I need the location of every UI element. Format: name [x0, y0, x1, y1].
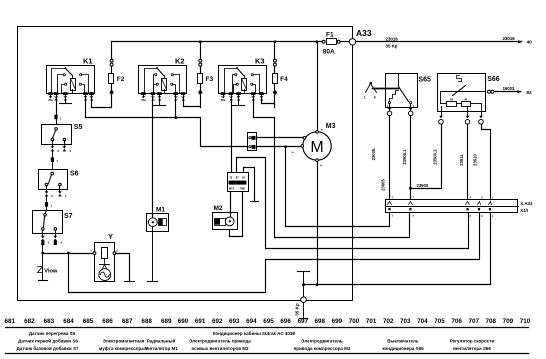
svg-text:695: 695 — [263, 318, 274, 325]
svg-text:87: 87 — [236, 176, 239, 180]
svg-text:86a: 86a — [221, 98, 226, 102]
junction M3 supply tap — [316, 40, 319, 43]
svg-text:1: 1 — [51, 204, 53, 208]
svg-text:686: 686 — [102, 318, 113, 325]
wire junction to connector strip (bus A) — [286, 147, 390, 227]
svg-text:кондиционера S65: кондиционера S65 — [382, 346, 424, 351]
svg-text:1: 1 — [492, 215, 494, 218]
svg-text:23005.: 23005. — [371, 148, 376, 161]
junction net87 at K2 — [174, 116, 177, 119]
regulator S66 fan speed — [438, 74, 500, 113]
svg-text:S7: S7 — [64, 213, 73, 220]
junction feed to strip — [67, 252, 70, 255]
svg-text:40: 40 — [527, 40, 533, 46]
motor M1 — [147, 207, 169, 232]
pin square S5 top — [54, 115, 61, 121]
svg-text:Электродвигатель привода: Электродвигатель привода — [189, 339, 251, 344]
caption switch S65 — [382, 339, 424, 351]
svg-text:694: 694 — [246, 318, 257, 325]
relay K1 — [47, 57, 95, 102]
svg-text:F4: F4 — [280, 76, 288, 83]
svg-text:689: 689 — [161, 318, 172, 325]
svg-text:S6: S6 — [70, 170, 79, 177]
svg-text:23500.1: 23500.1 — [402, 149, 407, 165]
connector strip X A33 and X1/I — [386, 196, 519, 218]
wire K2 pin86 to motor M1 — [152, 98, 154, 219]
svg-text:23511: 23511 — [459, 154, 464, 166]
svg-text:3: 3 — [481, 215, 483, 218]
wire battery feed 23016 to terminal 40 — [356, 40, 523, 43]
wire K1 pin86 to switch S5 — [56, 98, 58, 125]
svg-text:Датчик перегрева S5: Датчик перегрева S5 — [29, 331, 76, 336]
wire main power bus — [112, 41, 322, 43]
svg-text:u-: u- — [320, 163, 323, 167]
wire 23500.2 — [411, 125, 442, 189]
svg-text:703: 703 — [400, 318, 411, 325]
switch S65 A/C on-off — [386, 74, 432, 109]
label X1/I — [520, 208, 528, 213]
svg-text:7: 7 — [392, 196, 394, 199]
connector pins under S7 — [41, 236, 62, 254]
svg-text:85: 85 — [242, 176, 245, 180]
svg-text:696: 696 — [280, 318, 291, 325]
wire connector pin1 to M3 — [257, 137, 304, 139]
chassis termination — [298, 272, 310, 298]
label X.A33 — [520, 201, 533, 206]
label 35 Kp — [386, 43, 398, 48]
svg-text:687: 687 — [122, 318, 133, 325]
motor M2 — [213, 205, 238, 229]
ground clutch Y — [116, 254, 135, 282]
svg-text:78: 78 — [229, 176, 232, 180]
wire K3 pin86 to resistor module — [231, 98, 233, 173]
caption sensors S5 S6 S7 — [17, 331, 79, 351]
wire K2 pin87 drop — [175, 98, 177, 118]
svg-text:Датчик базовой добавки S7: Датчик базовой добавки S7 — [17, 345, 79, 351]
svg-text:вентилятор M1: вентилятор M1 — [144, 346, 178, 351]
svg-text:муфта компрессора Y: муфта компрессора Y — [99, 345, 148, 351]
wire connector pin2 to M3 — [257, 146, 302, 148]
label 23005 upper — [371, 148, 376, 161]
svg-text:23500: 23500 — [417, 183, 429, 188]
junction return bus — [316, 283, 319, 286]
svg-text:M: M — [310, 139, 323, 156]
junction sensor chain — [41, 252, 44, 255]
current track scale 681-710 — [5, 318, 531, 325]
label 23500.2 — [432, 149, 437, 165]
svg-text:Радиальный: Радиальный — [147, 338, 176, 344]
ground exit 35 Kp — [295, 303, 308, 319]
svg-text:2: 2 — [48, 241, 50, 245]
junction 23500 — [409, 187, 412, 190]
wire M3 supply — [317, 42, 319, 131]
wire 23510 — [482, 125, 491, 200]
wire K3 pin87 to bus B — [254, 98, 410, 238]
svg-text:704: 704 — [417, 318, 428, 325]
wire module to M2 plus — [230, 192, 232, 218]
lever actuator of S65 — [363, 82, 398, 100]
svg-text:86a: 86a — [49, 98, 54, 102]
svg-text:K1: K1 — [83, 57, 93, 66]
node A33 label — [356, 28, 372, 38]
svg-text:осевых вентиляторов M2: осевых вентиляторов M2 — [191, 346, 249, 351]
connector pins under S6 — [45, 191, 67, 202]
wire net87 K1-K2 to inline connector — [86, 98, 248, 147]
svg-text:684: 684 — [63, 318, 74, 325]
caption fans M2 — [189, 339, 251, 351]
svg-text:7: 7 — [412, 215, 414, 218]
svg-text:707: 707 — [468, 318, 479, 325]
svg-text:M1: M1 — [156, 207, 165, 214]
caption unit Sutrak — [213, 330, 296, 336]
svg-text:80A: 80A — [323, 48, 335, 55]
wire K3 pin30 to fuse F4 — [262, 98, 275, 108]
pin square S7 top — [45, 202, 53, 208]
svg-text:вентилятора S66: вентилятора S66 — [453, 346, 491, 351]
svg-text:3: 3 — [481, 196, 483, 199]
svg-text:7: 7 — [392, 215, 394, 218]
svg-text:692: 692 — [212, 318, 223, 325]
svg-text:1: 1 — [60, 116, 62, 120]
svg-text:A33: A33 — [356, 28, 372, 38]
svg-text:X.A33: X.A33 — [520, 201, 533, 206]
wire module pin3 to termination — [244, 168, 259, 202]
svg-text:700: 700 — [349, 318, 360, 325]
svg-text:85: 85 — [237, 98, 240, 102]
svg-text:S65: S65 — [419, 76, 432, 83]
caption clutch Y — [99, 339, 148, 351]
svg-text:691: 691 — [195, 318, 206, 325]
svg-text:23016: 23016 — [386, 37, 399, 42]
connector pins under S5 — [51, 146, 72, 157]
wire 23511 — [467, 125, 469, 200]
junction chassis tap — [302, 283, 305, 286]
svg-text:701: 701 — [366, 318, 377, 325]
switch S6 — [39, 170, 79, 192]
svg-text:4: 4 — [69, 149, 71, 153]
label 23510 — [473, 154, 478, 166]
fuse F4 — [273, 42, 289, 108]
svg-text:7: 7 — [412, 196, 414, 199]
svg-text:K2: K2 — [175, 57, 185, 66]
svg-text:K3: K3 — [255, 57, 265, 66]
svg-text:697: 697 — [297, 318, 308, 325]
label 23500.1 — [402, 149, 407, 165]
svg-text:690: 690 — [178, 318, 189, 325]
ground relay K2 pin 85 — [154, 98, 166, 106]
svg-text:0: 0 — [374, 96, 376, 100]
svg-text:706: 706 — [451, 318, 462, 325]
svg-text:92: 92 — [526, 90, 532, 96]
svg-text:702: 702 — [383, 318, 394, 325]
svg-text:1: 1 — [90, 248, 92, 252]
svg-text:MTA: MTA — [229, 187, 235, 191]
wire module to net M3 aux — [237, 158, 469, 249]
output 16003 of S66 — [488, 86, 533, 96]
label 23511 — [459, 154, 464, 166]
svg-text:685: 685 — [83, 318, 94, 325]
svg-text:Y: Y — [108, 234, 113, 241]
svg-text:693: 693 — [229, 318, 240, 325]
svg-text:35 Kp: 35 Kp — [295, 303, 300, 316]
svg-text:23500.2: 23500.2 — [432, 149, 437, 165]
switch S5 — [42, 124, 83, 146]
inline connector X of motor M3 — [248, 133, 257, 151]
svg-text:S5: S5 — [74, 124, 83, 131]
svg-text:4: 4 — [65, 194, 67, 198]
wire K2 pin30 to fuse F3 — [184, 98, 201, 108]
relay K3 — [219, 57, 267, 102]
svg-text:F3: F3 — [206, 76, 214, 83]
rule below captions — [6, 353, 529, 355]
svg-text:M2: M2 — [214, 205, 223, 212]
wire 23500.1 S65 to strip — [410, 116, 412, 200]
svg-text:Регулятор скорости: Регулятор скорости — [450, 339, 495, 344]
junction fuse F4 tap — [274, 40, 277, 43]
svg-text:Электродвигатель: Электродвигатель — [301, 339, 343, 344]
svg-text:F1: F1 — [326, 32, 334, 39]
resistor module of axial fans — [228, 173, 249, 192]
svg-text:688: 688 — [141, 318, 152, 325]
svg-text:4: 4 — [470, 215, 472, 218]
label 23005 lower — [381, 179, 386, 191]
node A33 boundary terminal — [349, 39, 355, 45]
grommet on frame — [301, 297, 307, 303]
label terminal 40 — [527, 40, 533, 46]
ground relay K3 pin 85 — [233, 98, 245, 106]
svg-text:привода компрессора M3: привода компрессора M3 — [294, 346, 351, 351]
motor M3 — [292, 123, 336, 167]
wire S5 to S6 — [52, 163, 54, 170]
caption regulator S66 — [450, 339, 495, 351]
svg-text:86a: 86a — [142, 98, 147, 102]
svg-text:S66: S66 — [487, 76, 500, 83]
svg-text:Выключатель: Выключатель — [387, 339, 419, 344]
svg-text:23016: 23016 — [503, 36, 516, 41]
wire sensor feed to strip (bus D) — [69, 213, 480, 293]
svg-text:F2: F2 — [117, 76, 125, 83]
svg-text:90: 90 — [464, 97, 468, 101]
svg-text:708: 708 — [486, 318, 497, 325]
svg-text:16003.: 16003. — [503, 86, 516, 91]
relay K2 — [139, 57, 187, 102]
label 23016 right — [503, 36, 516, 41]
svg-text:1: 1 — [56, 159, 58, 163]
label 23016 — [386, 37, 399, 42]
svg-text:1: 1 — [363, 96, 365, 100]
svg-text:681: 681 — [5, 318, 16, 325]
junction fuse F3 tap — [199, 40, 202, 43]
svg-text:2: 2 — [57, 149, 59, 153]
label 23500 — [417, 183, 429, 188]
enclosure frame of A/C unit A33 — [18, 27, 353, 301]
rule above captions — [6, 327, 529, 329]
wire sensor chain to clutch Y — [43, 253, 96, 255]
connector pins under S65 — [387, 108, 413, 116]
svg-text:23005: 23005 — [381, 179, 386, 191]
svg-text:23510: 23510 — [473, 154, 478, 166]
caption compressor M3 — [294, 339, 351, 351]
wire module to M2 minus — [230, 192, 243, 237]
wire S6 to S7 — [46, 207, 47, 213]
svg-text:u-: u- — [292, 150, 295, 154]
svg-text:M3: M3 — [326, 123, 336, 130]
svg-text:Датчик первой добавки S6: Датчик первой добавки S6 — [18, 338, 78, 344]
junction net to S65 — [284, 145, 287, 148]
wire M3 return bus to strip — [304, 213, 491, 285]
pin square S6 top — [51, 157, 59, 163]
svg-text:2: 2 — [51, 194, 53, 198]
svg-text:709: 709 — [503, 318, 514, 325]
switch S7 — [33, 211, 73, 237]
svg-text:Электромагнитная: Электромагнитная — [103, 339, 145, 344]
svg-text:X1/I: X1/I — [520, 208, 528, 213]
svg-text:w: w — [320, 127, 324, 131]
svg-text:2: 2 — [116, 248, 118, 252]
ground relay K1 pin 85 — [60, 98, 72, 104]
clutch Y solenoid — [90, 234, 118, 282]
wire M3 return — [317, 162, 319, 285]
svg-text:Vlow: Vlow — [44, 269, 58, 275]
fuse F3 — [198, 42, 214, 108]
svg-text:710: 710 — [520, 318, 531, 325]
wire 23005 S65 to strip — [389, 116, 391, 200]
fuse F2 — [109, 42, 125, 108]
caption fan M1 — [144, 338, 178, 351]
svg-text:85: 85 — [158, 98, 161, 102]
svg-text:4: 4 — [470, 196, 472, 199]
connector pins under S66 — [439, 113, 484, 125]
fuse F1 — [322, 32, 349, 56]
svg-text:4: 4 — [60, 241, 62, 245]
wire K1 pin30 to fuse F2 — [92, 98, 112, 108]
svg-text:699: 699 — [332, 318, 343, 325]
ground motor M1 — [148, 227, 158, 282]
test point Vlow — [38, 254, 59, 281]
svg-text:Кондиционер кабины Sütrak AC 4: Кондиционер кабины Sütrak AC 403E — [213, 330, 296, 336]
svg-text:1: 1 — [492, 196, 494, 199]
svg-text:683: 683 — [44, 318, 55, 325]
svg-text:80: 80 — [450, 97, 454, 101]
svg-text:35 Kp: 35 Kp — [386, 43, 398, 48]
svg-text:TME: TME — [240, 187, 246, 191]
svg-text:705: 705 — [434, 318, 445, 325]
svg-text:682: 682 — [24, 318, 35, 325]
svg-text:698: 698 — [315, 318, 326, 325]
